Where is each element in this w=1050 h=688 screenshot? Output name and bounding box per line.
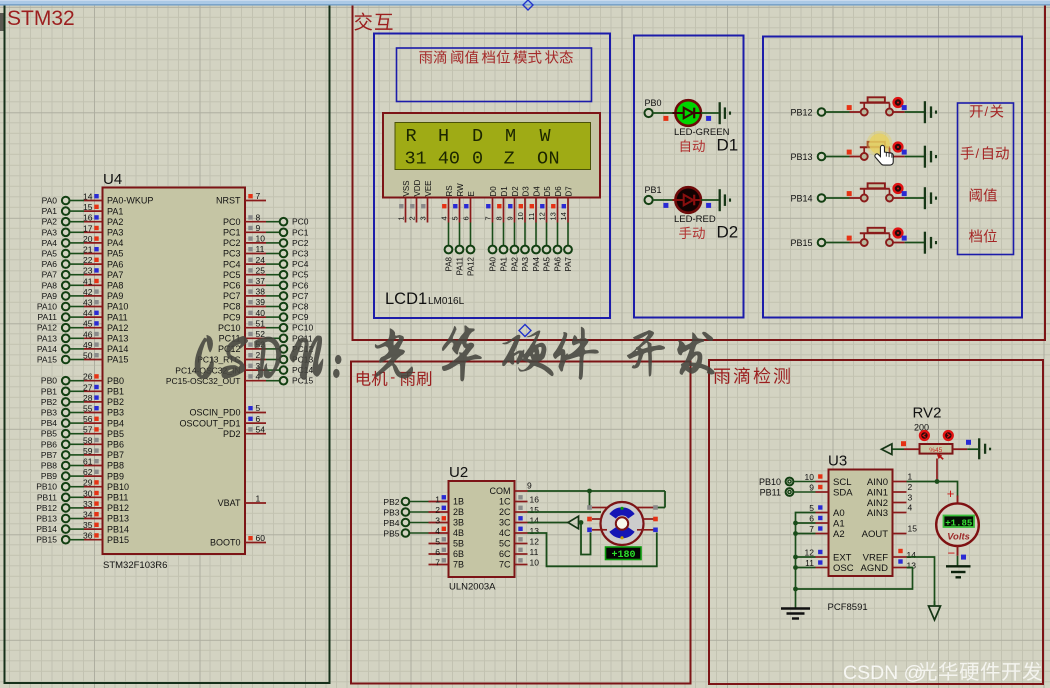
U2 reference label [449,464,468,481]
U4 pin 7 (NRST) [216,191,266,206]
svg-text:PB13: PB13 [790,152,812,162]
svg-text:/: / [985,104,989,119]
terminal PC14 [280,365,314,375]
wire PB7 to U4 [69,454,84,456]
wire U4 to terminal PC15 [266,380,280,382]
svg-text:PB12: PB12 [790,108,812,118]
terminal PC11 [280,333,313,343]
button function label 阈值 [970,188,997,201]
svg-text:4B: 4B [453,528,464,538]
U4 pin 17 (PA3) [83,223,123,237]
LCD title text 雨滴 阈值 档位 模式 状态 [419,50,573,63]
svg-text:PB4: PB4 [107,418,124,428]
wire PB10 to U4 [69,486,84,488]
wire U4 to terminal PC1 [266,231,280,233]
svg-text:A1: A1 [833,519,845,530]
svg-text:12: 12 [538,212,547,220]
svg-text:SCL: SCL [833,477,851,488]
wire LCD1 pin 13 to terminal PA6 [557,223,559,246]
svg-text:11: 11 [256,244,265,254]
svg-text:15: 15 [908,524,918,534]
svg-text:PB10: PB10 [107,482,129,492]
svg-text:PC8: PC8 [292,302,309,312]
wire junction down to motor left coil [589,491,591,506]
terminal PB8 [41,461,70,471]
wire PA4 to U4 [69,242,84,244]
wire LCD1 pin 9 to terminal PA2 [514,223,516,246]
svg-text:25: 25 [256,265,266,275]
terminal PA5 [42,249,70,259]
LCD1 pin 8 (D1) [495,198,504,223]
red mode label for D2 [679,227,705,239]
svg-text:PB4: PB4 [383,518,399,528]
wire PB4 to U4 [69,422,84,424]
svg-text:6: 6 [809,514,814,524]
U4 pin 25 (PC5) [223,265,266,280]
svg-text:14: 14 [530,515,540,525]
LCD1 pin 13 (D6) [549,198,558,223]
U3 pin 2 (AIN1) [867,482,913,499]
svg-text:41: 41 [83,276,93,286]
U4 pin 40 (PC9) [223,308,266,323]
terminal PB3 [41,408,70,418]
RV2 adjust indicators (red rings) [920,431,953,440]
wire PA8 to U4 [69,284,84,286]
LCD text row 2: 31 40 0 Z ON [405,149,560,170]
ground (power rail) for PB14 [925,187,936,209]
LED D1 (LED-GREEN) [673,100,702,126]
svg-text:56: 56 [83,414,93,424]
terminal PA8 [42,280,70,290]
svg-text:12: 12 [530,536,540,546]
wire LED D1 to ground [701,113,719,121]
svg-text:9: 9 [256,223,261,233]
wire PB10 to U3 SCL [794,481,816,483]
wire PB13 to button [825,150,851,157]
svg-text:R: R [406,126,417,147]
svg-text:PC1: PC1 [292,227,309,237]
svg-text:22: 22 [83,255,93,265]
LCD1 bezel (LM016L) [383,113,600,198]
svg-text:54: 54 [256,424,266,434]
RV2 wiper arrow [937,453,944,459]
svg-text:PC7: PC7 [223,291,241,301]
svg-text:PA4: PA4 [532,256,541,271]
svg-text:4: 4 [435,526,440,536]
svg-text:PB2: PB2 [41,397,57,407]
svg-text:PC4: PC4 [292,259,309,269]
terminal PB12 [36,503,69,513]
svg-text:20: 20 [83,234,93,244]
terminal PB6 [41,439,70,449]
svg-text:2: 2 [908,482,913,492]
motor section border [351,362,691,684]
U4 pin 60 (BOOT0) [210,533,266,548]
push-buttons blue box [763,37,1022,318]
wire LCD1 pin 7 to terminal PA0 [492,223,494,246]
wire U4 to terminal PC13 [266,359,280,361]
svg-text:RW: RW [456,183,465,197]
svg-text:/: / [976,146,980,161]
svg-text:PA11: PA11 [107,312,128,322]
U4 pin 9 (PC1) [223,223,266,238]
U3 pin 6 (A1) [809,514,844,530]
U3 pin 13 (AGND) [861,559,917,574]
svg-text:PA0: PA0 [42,196,58,206]
LCD1 pin 11 (D4) [527,198,536,223]
terminal PC5 [280,270,309,280]
U4 pin 41 (PA8) [83,276,123,290]
voltmeter Volts label [947,532,970,543]
wire AIN0 net to voltmeter [937,482,958,497]
mouse hover highlight [866,131,892,157]
wire terminal PB4 to U2 pin 3 [409,522,428,524]
svg-text:15: 15 [530,505,540,515]
svg-text:PA2: PA2 [42,217,58,227]
svg-text:PB5: PB5 [383,529,399,539]
U3 pin 5 (A0) [809,503,844,519]
svg-text:VREF: VREF [863,553,889,564]
svg-text:33: 33 [83,499,93,509]
LED D2 (LED-RED) [673,187,702,213]
push button PB13 [850,142,905,160]
terminal PB10 [36,482,69,492]
svg-text:D2: D2 [511,186,520,197]
U4 pin 3 (PC14-OSC32_IN) [175,361,266,376]
terminal PB5 [41,429,70,439]
svg-text:5: 5 [435,536,440,546]
svg-text:PA13: PA13 [107,334,128,344]
svg-text:9: 9 [506,216,515,220]
svg-text:PD2: PD2 [223,429,241,439]
terminal PB7 [41,450,70,460]
svg-text:PA13: PA13 [37,333,57,343]
svg-text:PB2: PB2 [107,397,124,407]
svg-text:45: 45 [83,319,93,329]
svg-text:RS: RS [445,185,454,196]
svg-text:Z: Z [504,149,515,170]
wire U4 to terminal PC0 [266,221,280,223]
U3 pin 10 (SCL) [805,472,852,488]
LCD1 pin 4 (RS) [440,198,449,223]
wire U3 AIN0 to wiper net [907,481,938,483]
wire U4 to terminal PC5 [266,274,280,276]
wire PB12 to U4 [69,507,84,509]
U4 pin 46 (PA13) [83,329,128,343]
LCD1 pin 9 (D2) [506,198,515,223]
svg-text:PA7: PA7 [564,256,573,271]
svg-text:2B: 2B [453,507,464,517]
svg-text:+1.85: +1.85 [945,518,972,528]
svg-text:7B: 7B [453,560,464,570]
wire button PB15 to ground [905,242,924,244]
svg-text:59: 59 [83,446,93,456]
wire button PB13 to ground [905,156,924,158]
svg-text:17: 17 [83,223,93,233]
wire PB5 to U4 [69,433,84,435]
svg-text:PB15: PB15 [790,238,812,248]
svg-text:3C: 3C [499,518,511,528]
U4 pin 34 (PB13) [83,510,129,524]
svg-text:PB1: PB1 [645,185,662,195]
svg-text:5C: 5C [499,539,511,549]
U2 pin 15 (2C) [499,505,539,517]
LCD screen [395,123,591,170]
button actuator indicator PB14 [894,184,907,196]
svg-text:10: 10 [256,234,266,244]
terminal PA7 [564,246,573,272]
terminal PB1 [645,185,662,204]
terminal PC6 [280,280,309,290]
terminal PB14 [36,524,69,534]
voltmeter display +1.85 [944,516,975,529]
motor angle display +180 [606,547,642,561]
U4 pin 15 (PA1) [83,202,123,216]
LCD1 pin 10 (D3) [516,198,525,223]
svg-text:LM016L: LM016L [428,296,465,307]
svg-text:PA1: PA1 [500,256,509,271]
svg-text:E: E [467,191,476,196]
svg-text:7: 7 [809,524,814,534]
RV2 value label 200 [914,423,929,433]
U4 pin 29 (PB10) [83,478,129,492]
svg-text:AIN0: AIN0 [867,477,888,488]
svg-text:36: 36 [83,531,93,541]
wire terminal PB3 to U2 pin 2 [409,511,428,513]
watermark bottom CSDN @光华硬件开发 [843,662,1042,684]
wire RV2 left terminal to input arrow [892,441,920,449]
terminal PA4 [532,246,541,272]
svg-text:+: + [947,486,955,501]
rain detection section label 雨滴检测 [714,367,790,384]
junction nodes on bus [793,521,798,592]
svg-text:1C: 1C [499,497,511,507]
svg-text:62: 62 [83,467,93,477]
U4 pin 57 (PB5) [83,425,124,439]
svg-text:14: 14 [83,192,93,202]
terminal PA1 [42,206,70,216]
svg-text:3: 3 [908,493,913,503]
svg-text:PC0: PC0 [292,217,309,227]
U3 pin 15 (AOUT) [862,524,918,541]
svg-text:PB8: PB8 [41,461,57,471]
svg-text:PB11: PB11 [107,493,128,503]
U4 pin 45 (PA12) [83,319,128,333]
wire PB13 to U4 [69,518,84,520]
svg-text:PB3: PB3 [107,408,124,418]
svg-text:PA4: PA4 [107,238,123,248]
wire PA12 to U4 [69,327,84,329]
U4 pin 62 (PB9) [83,467,124,481]
watermark calligraphy CSDN: [195,335,342,380]
U3 pin 3 (AIN2) [867,493,913,510]
svg-text:1: 1 [256,494,261,504]
svg-text:PC10: PC10 [218,323,241,333]
svg-text:PB8: PB8 [107,461,124,471]
LCD display outer blue box [374,34,610,319]
svg-text:7: 7 [484,216,493,220]
origin marker diamond (top) [523,0,533,10]
svg-text:4: 4 [438,149,449,170]
wire PB11 to U4 [69,496,84,498]
LCD1 pin 12 (D5) [538,198,547,223]
svg-text:PA9: PA9 [42,291,58,301]
svg-text:PC2: PC2 [223,238,241,248]
wire arrow to motor left lower coil [579,520,591,554]
svg-text:VDD: VDD [413,179,422,196]
U2 value label ULN2003A [449,582,496,593]
svg-text:7C: 7C [499,560,511,570]
svg-text:D: D [472,126,483,147]
U4 pin 2 (PC13_RTC) [197,350,266,365]
svg-text:ULN2003A: ULN2003A [449,582,496,593]
svg-text:D5: D5 [543,186,552,197]
svg-text:W: W [540,126,552,147]
U2 pin 3 (3B) [429,515,465,527]
terminal PB11 [37,492,70,502]
svg-text:VBAT: VBAT [218,498,241,508]
svg-text:PC9: PC9 [223,312,241,322]
svg-text:4C: 4C [499,528,511,538]
svg-text:PA3: PA3 [42,227,58,237]
svg-text:AIN1: AIN1 [867,488,888,499]
svg-text:SDA: SDA [833,488,853,499]
svg-text:STM32: STM32 [7,7,75,30]
adc U3 body (PCF8591) [829,470,893,577]
svg-text:3: 3 [405,149,416,170]
svg-text:PA10: PA10 [37,302,57,312]
U4 pin 24 (PC4) [223,255,266,270]
svg-text:21: 21 [83,245,93,255]
terminal PB13 [790,152,825,162]
ground symbol for bus [781,609,810,619]
terminal PB3 [383,508,409,518]
red mode label for D1 [681,140,705,152]
terminal PC15 [280,376,314,386]
U2 pin 7 (7B) [429,557,465,569]
svg-text:AIN3: AIN3 [867,508,888,519]
wire U4 to terminal PC14 [266,369,280,371]
svg-text:2: 2 [435,505,440,515]
terminal PC7 [280,291,309,301]
svg-text:30: 30 [83,488,93,498]
wire PB14 to U4 [69,528,84,530]
svg-text:PB3: PB3 [41,408,57,418]
svg-text:PC2: PC2 [292,238,309,248]
svg-text:0: 0 [472,149,483,170]
wire U4 to terminal PC9 [266,316,280,318]
svg-text:PC9: PC9 [292,312,309,322]
svg-text:PA15: PA15 [37,355,57,365]
svg-text:D7: D7 [565,186,574,197]
svg-text:16: 16 [530,494,540,504]
U4 pin 27 (PB1) [83,382,124,396]
motor terminal pins and state squares [587,505,658,532]
U4 pin 21 (PA5) [83,245,123,259]
svg-text:PB13: PB13 [36,514,57,524]
U4 pin 43 (PA10) [83,298,128,312]
svg-text:PB0: PB0 [107,376,124,386]
svg-text:42: 42 [83,287,93,297]
svg-text:PB10: PB10 [759,477,781,487]
svg-text:PA11: PA11 [456,256,465,275]
svg-text:11: 11 [805,558,814,568]
svg-text:PA14: PA14 [37,344,57,354]
svg-text:Volts: Volts [947,532,970,543]
svg-text:N: N [549,149,560,170]
svg-text:PA12: PA12 [107,323,128,333]
terminal PC1 [280,227,309,237]
U4 pin 28 (PB2) [83,393,124,407]
svg-text:PA1: PA1 [42,206,58,216]
terminal PC2 [280,238,309,248]
push button PB12 [850,97,905,115]
wire PA2 to U4 [69,221,84,223]
svg-text:PA6: PA6 [107,259,123,269]
wire U2 3C to direction arrow [528,522,569,524]
U2 pin 1 (1B) [429,494,465,506]
button function label 手/自动 [961,146,1009,161]
svg-text:39: 39 [256,297,266,307]
terminal PB13 [36,514,69,524]
direction arrow (open triangle) [568,516,579,529]
watermark calligraphy 光华硬件开发 [375,325,715,381]
svg-text:55: 55 [83,404,93,414]
LED name label LED-RED [674,214,716,225]
U4 pin 1 (VBAT) [218,494,266,509]
wire PB14 to button [825,191,851,198]
wire U4 to terminal PC12 [266,348,280,350]
wire RV2 right terminal to power rail [953,440,979,449]
svg-text:PB13: PB13 [107,514,129,524]
svg-text:2C: 2C [499,507,511,517]
mcu U4 body (STM32F103R6) [103,188,246,555]
svg-text:PB15: PB15 [107,535,129,545]
svg-text:37: 37 [256,276,266,286]
svg-text:PB5: PB5 [41,429,57,439]
voltmeter body [936,496,979,547]
terminal PB2 [41,397,70,407]
U4 pin 4 (PC15-OSC32_OUT) [166,371,266,386]
wire VREF to output arrow [907,557,935,606]
svg-text:D2: D2 [717,223,739,242]
svg-text:PB0: PB0 [645,98,662,108]
U4 pin 54 (PD2) [223,424,266,439]
svg-text:10: 10 [805,472,815,482]
svg-text:5: 5 [256,403,261,413]
wire PB0 to U4 [69,380,84,382]
svg-text:%45: %45 [929,447,942,454]
wire PB8 to U4 [69,465,84,467]
svg-text:7: 7 [256,191,261,201]
driver U2 body (ULN2003A) [449,481,515,577]
svg-text:STM32F103R6: STM32F103R6 [103,560,167,571]
terminal PA11 [456,246,465,276]
U3 pin 9 (SDA) [809,483,853,499]
LCD pin name labels (rotated) [402,179,574,196]
terminal PA1 [500,246,509,272]
LCD title blue box [397,48,592,102]
U4 pin 6 (OSCOUT_PD1) [179,414,266,429]
svg-text:PB2: PB2 [383,497,399,507]
svg-text:46: 46 [83,329,93,339]
svg-text:58: 58 [83,435,93,445]
U3 reference label [828,453,847,470]
wire U2 COM to motor (top net) [528,490,666,492]
terminal PA8 [445,246,454,272]
svg-text:PB15: PB15 [36,535,57,545]
wire U4 to terminal PC8 [266,306,280,308]
